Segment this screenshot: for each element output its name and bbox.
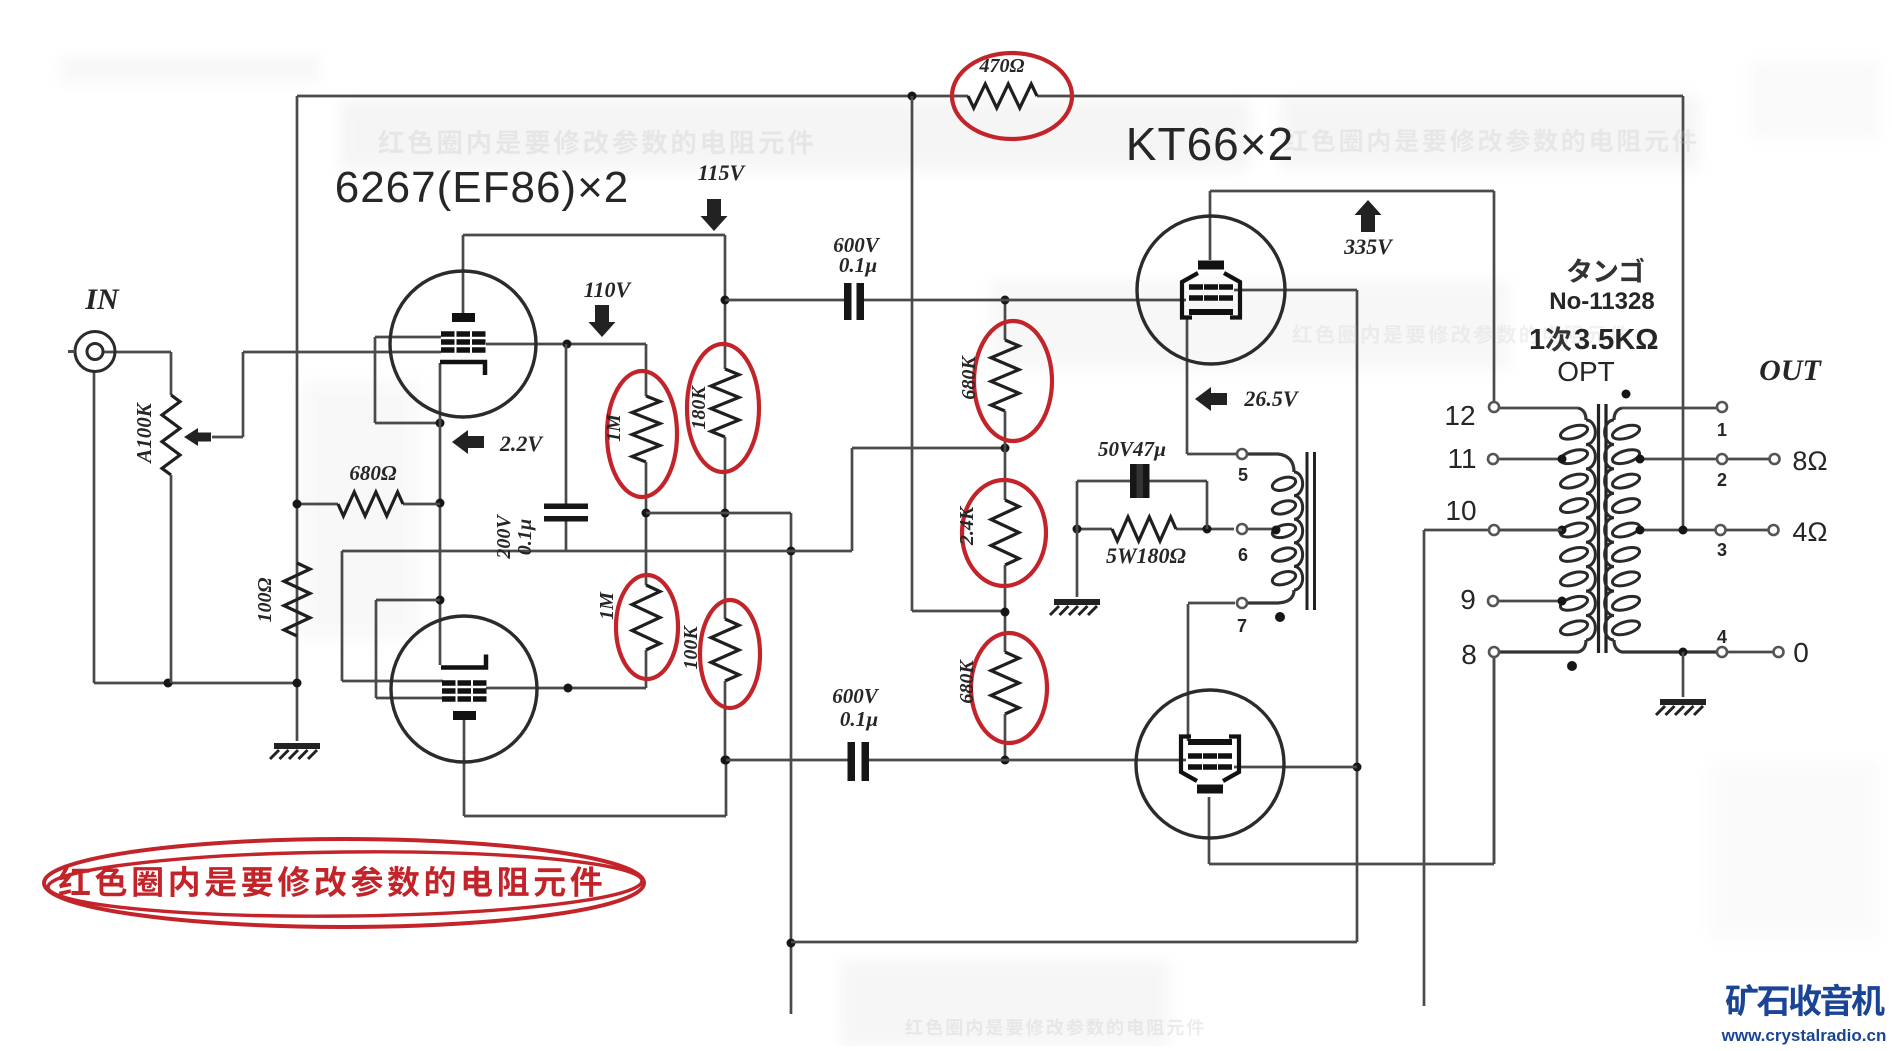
svg-text:3: 3 — [1717, 540, 1727, 560]
svg-text:4: 4 — [1717, 627, 1727, 647]
svg-text:6267(EF86)×2: 6267(EF86)×2 — [335, 163, 630, 212]
svg-text:1: 1 — [1529, 324, 1545, 356]
svg-text:0: 0 — [1793, 637, 1809, 668]
svg-text:0.1µ: 0.1µ — [839, 253, 877, 277]
svg-text:680K: 680K — [956, 659, 978, 704]
svg-text:180K: 180K — [688, 385, 710, 430]
svg-text:IN: IN — [84, 283, 120, 316]
svg-text:11: 11 — [1447, 443, 1476, 474]
svg-text:9: 9 — [1460, 584, 1476, 615]
svg-text:50V47µ: 50V47µ — [1098, 437, 1166, 461]
svg-text:680K: 680K — [958, 355, 980, 400]
svg-text:No-11328: No-11328 — [1549, 288, 1654, 315]
svg-text:100K: 100K — [680, 625, 702, 670]
svg-text:115V: 115V — [698, 160, 747, 185]
svg-text:8: 8 — [1461, 639, 1477, 670]
svg-text:2: 2 — [1717, 470, 1727, 490]
svg-text:KT66×2: KT66×2 — [1126, 118, 1294, 170]
svg-text:5: 5 — [1238, 465, 1248, 485]
svg-text:10: 10 — [1445, 495, 1476, 526]
svg-text:2.2V: 2.2V — [499, 431, 545, 456]
svg-text:335V: 335V — [1343, 234, 1394, 259]
svg-text:100Ω: 100Ω — [254, 577, 276, 622]
svg-text:A100K: A100K — [132, 401, 156, 465]
svg-text:www.crystalradio.cn: www.crystalradio.cn — [1721, 1026, 1887, 1045]
svg-text:7: 7 — [1237, 616, 1247, 636]
svg-text:470Ω: 470Ω — [979, 55, 1025, 77]
svg-text:680Ω: 680Ω — [349, 461, 397, 485]
svg-text:5W180Ω: 5W180Ω — [1106, 543, 1187, 568]
svg-text:OPT: OPT — [1557, 356, 1615, 387]
svg-text:12: 12 — [1444, 400, 1475, 431]
svg-text:4Ω: 4Ω — [1792, 517, 1827, 547]
svg-text:1: 1 — [1717, 420, 1727, 440]
svg-text:0.1µ: 0.1µ — [514, 519, 536, 556]
svg-text:1M: 1M — [596, 591, 618, 620]
svg-text:OUT: OUT — [1759, 354, 1822, 387]
svg-text:0.1µ: 0.1µ — [840, 707, 878, 731]
svg-text:2.4K: 2.4K — [956, 505, 978, 546]
svg-text:110V: 110V — [584, 277, 633, 302]
svg-text:26.5V: 26.5V — [1243, 386, 1300, 411]
svg-text:6: 6 — [1238, 545, 1248, 565]
svg-text:200V: 200V — [493, 514, 515, 560]
svg-text:3.5KΩ: 3.5KΩ — [1574, 324, 1659, 356]
svg-text:1M: 1M — [603, 413, 625, 442]
svg-text:8Ω: 8Ω — [1792, 446, 1827, 476]
svg-text:600V: 600V — [832, 684, 880, 708]
